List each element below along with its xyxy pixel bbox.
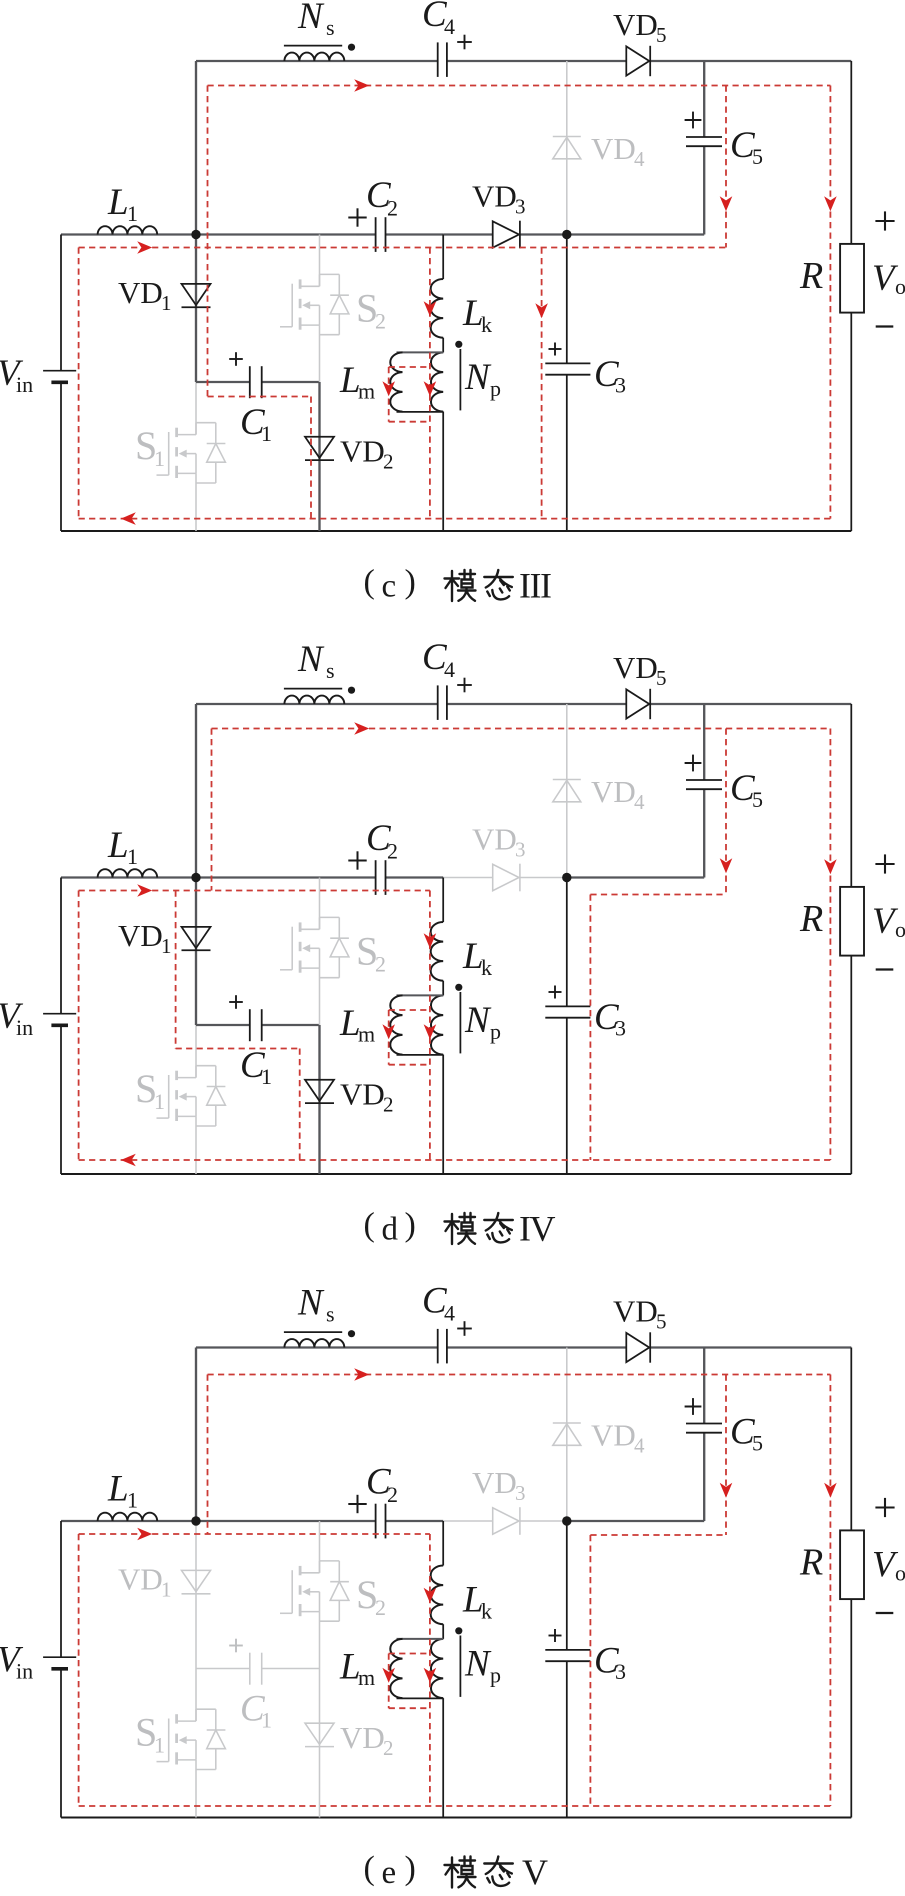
svg-text:1: 1: [154, 446, 165, 471]
svg-text:2: 2: [375, 1595, 386, 1620]
svg-text:III: III: [519, 565, 551, 605]
svg-text:k: k: [481, 955, 492, 980]
svg-text:1: 1: [261, 1708, 272, 1733]
svg-text:V: V: [522, 1852, 548, 1891]
svg-text:VD: VD: [118, 275, 163, 310]
svg-text:5: 5: [752, 787, 763, 812]
svg-text:k: k: [481, 312, 492, 337]
svg-text:5: 5: [656, 666, 667, 690]
svg-text:s: s: [326, 15, 335, 40]
svg-text:m: m: [358, 1022, 375, 1047]
svg-text:L: L: [107, 1469, 129, 1510]
svg-text:2: 2: [375, 952, 386, 977]
svg-text:4: 4: [634, 1434, 645, 1458]
svg-text:(: (: [364, 563, 375, 600]
svg-text:VD: VD: [613, 650, 658, 685]
svg-text:VD: VD: [118, 1562, 163, 1597]
svg-text:R: R: [799, 255, 823, 297]
svg-text:1: 1: [127, 1488, 138, 1513]
svg-text:VD: VD: [472, 1465, 517, 1500]
svg-text:3: 3: [515, 195, 526, 219]
svg-text:R: R: [799, 898, 823, 940]
svg-text:o: o: [895, 917, 905, 942]
svg-text:N: N: [297, 1283, 325, 1324]
svg-text:L: L: [107, 825, 129, 866]
svg-text:L: L: [107, 182, 129, 223]
svg-text:1: 1: [161, 934, 172, 958]
svg-text:R: R: [799, 1542, 823, 1584]
svg-text:N: N: [464, 1000, 492, 1041]
svg-text:1: 1: [154, 1733, 165, 1758]
svg-text:4: 4: [444, 1301, 455, 1326]
svg-text:5: 5: [752, 144, 763, 169]
svg-text:N: N: [297, 639, 325, 680]
svg-text:c: c: [382, 568, 397, 604]
svg-text:3: 3: [615, 373, 626, 398]
svg-text:VD: VD: [118, 918, 163, 953]
svg-text:2: 2: [383, 1736, 394, 1760]
svg-text:4: 4: [634, 790, 645, 814]
svg-text:2: 2: [387, 1482, 398, 1507]
svg-text:3: 3: [515, 838, 526, 862]
svg-text:2: 2: [383, 1093, 394, 1117]
svg-text:IV: IV: [519, 1208, 555, 1248]
svg-text:s: s: [326, 658, 335, 683]
svg-text:VD: VD: [472, 822, 517, 857]
svg-text:VD: VD: [340, 1077, 385, 1112]
svg-text:VD: VD: [340, 434, 385, 469]
svg-text:VD: VD: [591, 1418, 636, 1453]
svg-text:(: (: [364, 1850, 375, 1887]
svg-text:VD: VD: [613, 1294, 658, 1329]
svg-text:): ): [405, 1850, 416, 1887]
svg-text:d: d: [382, 1211, 399, 1247]
svg-text:2: 2: [387, 196, 398, 221]
svg-text:1: 1: [161, 291, 172, 315]
svg-text:1: 1: [161, 1578, 172, 1602]
svg-text:1: 1: [261, 1064, 272, 1089]
svg-text:VD: VD: [591, 131, 636, 166]
svg-text:5: 5: [752, 1431, 763, 1456]
svg-text:e: e: [382, 1855, 397, 1891]
svg-text:k: k: [481, 1599, 492, 1624]
svg-text:p: p: [490, 1019, 501, 1044]
svg-text:o: o: [895, 1561, 905, 1586]
svg-text:2: 2: [383, 450, 394, 474]
svg-text:VD: VD: [613, 7, 658, 42]
svg-text:3: 3: [615, 1659, 626, 1684]
svg-text:in: in: [16, 372, 33, 397]
svg-text:3: 3: [515, 1481, 526, 1505]
svg-text:4: 4: [444, 657, 455, 682]
svg-text:N: N: [464, 1644, 492, 1685]
svg-text:1: 1: [127, 201, 138, 226]
svg-text:VD: VD: [472, 179, 517, 214]
svg-text:): ): [405, 1206, 416, 1243]
svg-text:in: in: [16, 1659, 33, 1684]
svg-text:p: p: [490, 376, 501, 401]
svg-text:1: 1: [261, 421, 272, 446]
svg-text:3: 3: [615, 1016, 626, 1041]
svg-text:1: 1: [154, 1089, 165, 1114]
svg-text:N: N: [464, 357, 492, 398]
svg-text:1: 1: [127, 844, 138, 869]
svg-text:m: m: [358, 379, 375, 404]
svg-text:VD: VD: [591, 774, 636, 809]
svg-text:2: 2: [387, 839, 398, 864]
svg-text:): ): [405, 563, 416, 600]
svg-text:(: (: [364, 1206, 375, 1243]
svg-text:4: 4: [634, 147, 645, 171]
svg-text:5: 5: [656, 23, 667, 47]
svg-text:in: in: [16, 1015, 33, 1040]
svg-text:p: p: [490, 1663, 501, 1688]
svg-text:N: N: [297, 0, 325, 37]
svg-text:o: o: [895, 274, 905, 299]
svg-text:4: 4: [444, 14, 455, 39]
svg-text:5: 5: [656, 1310, 667, 1334]
svg-text:2: 2: [375, 309, 386, 334]
svg-text:VD: VD: [340, 1720, 385, 1755]
svg-text:m: m: [358, 1665, 375, 1690]
svg-text:s: s: [326, 1302, 335, 1327]
